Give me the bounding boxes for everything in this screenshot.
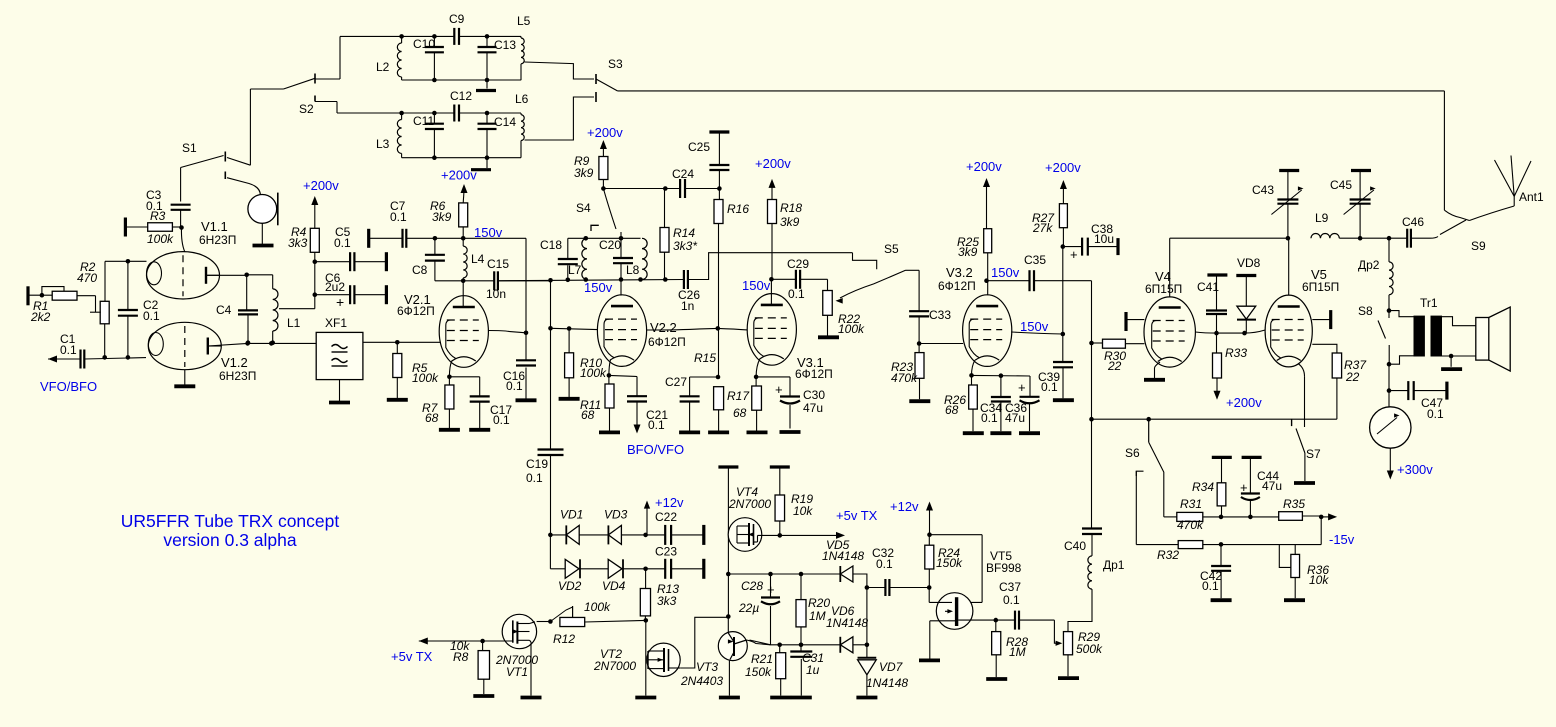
svg-text:Ant1: Ant1	[1519, 190, 1544, 204]
svg-text:+: +	[1240, 480, 1248, 495]
svg-text:3k9: 3k9	[574, 166, 594, 180]
svg-text:Др2: Др2	[1358, 258, 1380, 272]
svg-text:C45: C45	[1330, 178, 1352, 192]
svg-text:Др1: Др1	[1103, 558, 1125, 572]
svg-text:10u: 10u	[1094, 232, 1114, 246]
svg-text:6П15П: 6П15П	[1145, 282, 1182, 296]
svg-text:22: 22	[1107, 359, 1122, 373]
svg-text:C33: C33	[929, 308, 951, 322]
svg-text:C9: C9	[449, 12, 465, 26]
svg-text:VD8: VD8	[1237, 256, 1261, 270]
svg-text:6Ф12П: 6Ф12П	[795, 367, 833, 381]
svg-text:L6: L6	[515, 92, 529, 106]
svg-text:47u: 47u	[803, 401, 823, 415]
svg-text:VD3: VD3	[604, 508, 628, 522]
svg-text:C10: C10	[413, 37, 435, 51]
svg-text:R33: R33	[1225, 346, 1247, 360]
svg-text:L8: L8	[626, 263, 640, 277]
svg-text:3k9: 3k9	[958, 245, 978, 259]
svg-text:VD7: VD7	[879, 660, 904, 674]
svg-text:0.1: 0.1	[1202, 579, 1219, 593]
svg-text:6Ф12П: 6Ф12П	[397, 304, 435, 318]
svg-text:Tr1: Tr1	[1420, 296, 1438, 310]
svg-text:-15v: -15v	[1329, 532, 1355, 547]
svg-text:68: 68	[733, 406, 747, 420]
svg-text:L9: L9	[1315, 211, 1329, 225]
svg-text:R32: R32	[1157, 548, 1179, 562]
svg-text:500k: 500k	[1076, 642, 1103, 656]
svg-text:VT3: VT3	[696, 660, 718, 674]
svg-text:S7: S7	[1306, 447, 1321, 461]
svg-text:+200v: +200v	[755, 156, 791, 171]
svg-text:C46: C46	[1402, 215, 1424, 229]
svg-text:C37: C37	[999, 580, 1021, 594]
svg-text:S2: S2	[299, 102, 314, 116]
svg-text:100k: 100k	[147, 232, 174, 246]
svg-text:R31: R31	[1180, 497, 1202, 511]
svg-text:C11: C11	[413, 114, 434, 128]
svg-text:S4: S4	[576, 201, 591, 215]
svg-text:3k9: 3k9	[432, 210, 452, 224]
svg-text:VD1: VD1	[560, 508, 583, 522]
svg-text:VD2: VD2	[558, 579, 582, 593]
svg-text:2N7000: 2N7000	[728, 497, 771, 511]
svg-text:2k2: 2k2	[30, 310, 51, 324]
svg-text:C41: C41	[1197, 280, 1219, 294]
svg-text:+: +	[775, 382, 783, 397]
svg-text:S8: S8	[1358, 304, 1373, 318]
svg-text:2N7000: 2N7000	[593, 659, 636, 673]
svg-text:C18: C18	[540, 238, 562, 252]
svg-text:C8: C8	[412, 263, 428, 277]
svg-text:0.1: 0.1	[981, 411, 998, 425]
svg-text:150k: 150k	[936, 556, 963, 570]
svg-text:+5v TX: +5v TX	[836, 508, 878, 523]
svg-text:+300v: +300v	[1397, 462, 1433, 477]
svg-text:R3: R3	[150, 209, 166, 223]
svg-text:+: +	[1070, 247, 1078, 262]
svg-text:+: +	[1018, 380, 1026, 395]
svg-text:L3: L3	[376, 137, 390, 151]
svg-text:0.1: 0.1	[506, 379, 523, 393]
svg-text:22: 22	[1345, 370, 1360, 384]
svg-text:+200v: +200v	[303, 178, 339, 193]
svg-text:0.1: 0.1	[143, 309, 160, 323]
svg-text:68: 68	[581, 408, 595, 422]
svg-text:C20: C20	[599, 238, 621, 252]
svg-text:R15: R15	[694, 351, 716, 365]
svg-text:R34: R34	[1192, 480, 1214, 494]
svg-text:150v: 150v	[474, 225, 503, 240]
svg-text:C13: C13	[494, 38, 516, 52]
svg-text:1M: 1M	[1009, 645, 1026, 659]
svg-text:3k3*: 3k3*	[673, 239, 697, 253]
svg-text:1M: 1M	[809, 609, 826, 623]
svg-text:10k: 10k	[1309, 573, 1329, 587]
svg-text:R20: R20	[808, 596, 830, 610]
svg-text:150v: 150v	[1020, 319, 1049, 334]
svg-text:+200v: +200v	[587, 125, 623, 140]
svg-text:C19: C19	[526, 457, 548, 471]
svg-text:+: +	[336, 294, 344, 310]
svg-text:R21: R21	[751, 652, 773, 666]
svg-text:version 0.3 alpha: version 0.3 alpha	[163, 530, 297, 550]
svg-text:470k: 470k	[891, 371, 918, 385]
svg-text:1u: 1u	[806, 663, 820, 677]
svg-text:0.1: 0.1	[1041, 380, 1058, 394]
svg-text:6Ф12П: 6Ф12П	[648, 335, 686, 349]
svg-text:VT1: VT1	[506, 665, 528, 679]
svg-text:S6: S6	[1125, 446, 1140, 460]
svg-text:68: 68	[425, 411, 439, 425]
svg-text:R12: R12	[553, 632, 575, 646]
svg-text:C28: C28	[741, 579, 763, 593]
svg-text:0.1: 0.1	[788, 287, 805, 301]
svg-text:C29: C29	[787, 257, 809, 271]
svg-text:L7: L7	[568, 263, 582, 277]
svg-text:1N4148: 1N4148	[866, 676, 908, 690]
svg-text:0.1: 0.1	[334, 236, 351, 250]
svg-text:2N4403: 2N4403	[680, 674, 723, 688]
svg-text:150v: 150v	[742, 278, 771, 293]
svg-text:C22: C22	[655, 510, 677, 524]
svg-text:2u2: 2u2	[325, 280, 345, 294]
svg-text:0.1: 0.1	[648, 418, 665, 432]
svg-text:L5: L5	[517, 14, 531, 28]
svg-text:V3.2: V3.2	[946, 265, 973, 280]
svg-text:R18: R18	[780, 201, 802, 215]
svg-text:1n: 1n	[681, 299, 694, 313]
svg-text:0.1: 0.1	[876, 557, 893, 571]
svg-text:0.1: 0.1	[526, 471, 543, 485]
svg-text:C35: C35	[1024, 253, 1046, 267]
svg-text:C30: C30	[803, 388, 825, 402]
svg-text:R8: R8	[453, 650, 469, 664]
svg-text:C40: C40	[1064, 539, 1086, 553]
svg-text:V1.1: V1.1	[201, 219, 228, 234]
svg-text:100k: 100k	[412, 371, 439, 385]
svg-text:S9: S9	[1471, 239, 1486, 253]
svg-text:V2.2: V2.2	[650, 320, 677, 335]
svg-text:100k: 100k	[584, 600, 611, 614]
svg-text:VFO/BFO: VFO/BFO	[40, 379, 97, 394]
svg-text:+12v: +12v	[890, 499, 919, 514]
svg-text:C14: C14	[494, 115, 516, 129]
svg-text:47u: 47u	[1005, 411, 1025, 425]
svg-text:R16: R16	[727, 202, 749, 216]
svg-text:68: 68	[945, 403, 959, 417]
svg-text:UR5FFR Tube TRX concept: UR5FFR Tube TRX concept	[121, 511, 340, 531]
svg-text:C23: C23	[655, 545, 677, 559]
svg-text:1N4148: 1N4148	[826, 616, 868, 630]
svg-text:L1: L1	[287, 316, 301, 330]
svg-text:S1: S1	[182, 141, 197, 155]
svg-text:V1.2: V1.2	[221, 355, 248, 370]
svg-text:27k: 27k	[1032, 221, 1053, 235]
svg-text:3k9: 3k9	[780, 215, 800, 229]
svg-text:R14: R14	[673, 226, 695, 240]
svg-text:22µ: 22µ	[738, 601, 759, 615]
svg-text:C24: C24	[672, 167, 694, 181]
svg-text:R17: R17	[727, 389, 750, 403]
svg-text:150v: 150v	[991, 265, 1020, 280]
svg-text:BFO/VFO: BFO/VFO	[627, 442, 684, 457]
svg-text:3k3: 3k3	[657, 594, 677, 608]
svg-text:470k: 470k	[1177, 518, 1204, 532]
svg-text:10k: 10k	[793, 504, 813, 518]
svg-text:BF998: BF998	[986, 561, 1022, 575]
svg-text:VD4: VD4	[602, 579, 626, 593]
svg-text:C43: C43	[1252, 183, 1274, 197]
svg-text:S3: S3	[608, 57, 623, 71]
svg-text:0.1: 0.1	[60, 343, 77, 357]
svg-text:470: 470	[77, 271, 97, 285]
svg-text:0.1: 0.1	[493, 413, 510, 427]
svg-text:+200v: +200v	[1045, 160, 1081, 175]
svg-text:C4: C4	[216, 303, 232, 317]
svg-text:S5: S5	[884, 242, 899, 256]
svg-text:C12: C12	[450, 89, 472, 103]
svg-text:C15: C15	[487, 257, 509, 271]
svg-text:6Ф12П: 6Ф12П	[938, 279, 976, 293]
svg-text:C27: C27	[665, 375, 687, 389]
svg-text:3k3: 3k3	[288, 236, 308, 250]
svg-text:R35: R35	[1283, 497, 1305, 511]
svg-text:+200v: +200v	[966, 159, 1002, 174]
svg-text:100k: 100k	[838, 322, 865, 336]
svg-text:1N4148: 1N4148	[822, 549, 864, 563]
svg-text:L4: L4	[471, 252, 485, 266]
svg-text:10n: 10n	[486, 287, 506, 301]
svg-text:0.1: 0.1	[1003, 593, 1020, 607]
svg-text:150k: 150k	[745, 665, 772, 679]
svg-text:0.1: 0.1	[1427, 407, 1444, 421]
svg-text:+12v: +12v	[655, 495, 684, 510]
svg-text:+200v: +200v	[441, 168, 477, 183]
svg-text:6Н23П: 6Н23П	[219, 369, 256, 383]
svg-text:6Н23П: 6Н23П	[199, 233, 236, 247]
svg-text:150v: 150v	[584, 280, 613, 295]
svg-text:47u: 47u	[1262, 479, 1282, 493]
svg-text:+200v: +200v	[1226, 395, 1262, 410]
svg-text:XF1: XF1	[325, 316, 347, 330]
svg-text:L2: L2	[376, 60, 390, 74]
svg-text:100k: 100k	[580, 366, 607, 380]
svg-text:0.1: 0.1	[390, 210, 407, 224]
svg-text:+: +	[767, 582, 775, 597]
svg-text:+5v TX: +5v TX	[391, 649, 433, 664]
svg-text:C25: C25	[688, 140, 710, 154]
svg-text:6П15П: 6П15П	[1302, 280, 1339, 294]
